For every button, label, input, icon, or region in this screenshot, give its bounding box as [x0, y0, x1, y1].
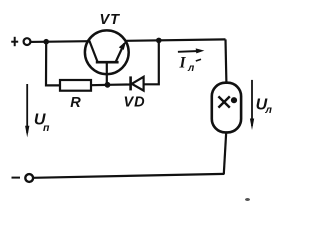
junction node C (top of diode branch): [156, 38, 162, 44]
base line: [96, 61, 119, 64]
collector line with arrow (right): [116, 44, 124, 62]
svg-text:VD: VD: [124, 95, 146, 111]
svg-text:VT: VT: [100, 12, 121, 28]
diode VD: [108, 76, 144, 90]
terminal - circle: [25, 174, 33, 182]
wire bottom: lamp corner to - terminal: [33, 174, 224, 178]
collector arrowhead: [119, 41, 127, 50]
voltage arrow Uп: [25, 84, 29, 137]
lamp dot: [231, 97, 237, 103]
emitter line (left): [89, 41, 97, 62]
node B (base node, junction dot): [105, 82, 111, 88]
diode triangle: [132, 77, 144, 91]
label Uл: [256, 97, 273, 117]
svg-text:л: л: [187, 63, 195, 74]
junction node A (top of R branch): [43, 39, 49, 45]
svg-text:R: R: [70, 95, 81, 111]
transistor VT: [85, 30, 129, 85]
terminal + (plus sign): [11, 37, 18, 46]
terminal - (minus sign): [12, 177, 21, 179]
terminal + circle: [24, 38, 31, 45]
base lead down: [106, 62, 108, 86]
wire lamp bottom down: [224, 132, 226, 174]
wire node B to diode: [108, 83, 130, 86]
current arrow Iл: [178, 48, 205, 53]
wire right drop to lamp: [224, 39, 227, 83]
wire resistor to base node: [91, 84, 108, 86]
wire top-right: transistor to lamp corner: [125, 39, 225, 40]
wire left branch down to resistor: [46, 42, 60, 86]
label Iл: [179, 55, 202, 75]
voltage arrow Uл: [250, 80, 254, 130]
wire top-left: + terminal to transistor: [30, 40, 88, 43]
lamp HL (capsule with x and dot): [212, 83, 241, 133]
diode cathode bar: [129, 76, 132, 90]
wire diode branch: down and left to diode: [144, 40, 159, 84]
svg-text:I: I: [179, 55, 187, 72]
lamp x symbol: [218, 96, 229, 107]
label Uп: [34, 112, 50, 134]
svg-text:п: п: [43, 122, 50, 134]
lamp body: [212, 83, 241, 133]
resistor R: [60, 80, 91, 91]
transistor body circle: [85, 30, 129, 74]
svg-text:л: л: [264, 104, 272, 116]
